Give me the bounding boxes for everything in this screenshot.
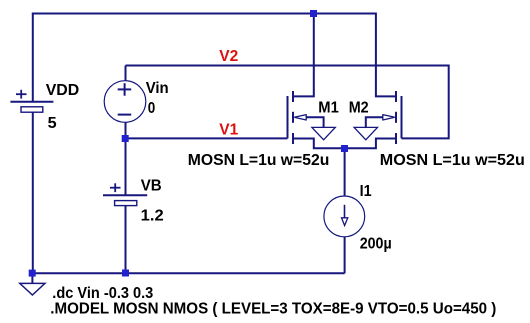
svg-text:VDD: VDD bbox=[46, 82, 79, 99]
svg-text:V1: V1 bbox=[219, 122, 238, 139]
svg-text:0: 0 bbox=[148, 100, 156, 117]
svg-text:.MODEL MOSN NMOS ( LEVEL=3 TOX: .MODEL MOSN NMOS ( LEVEL=3 TOX=8E-9 VTO=… bbox=[50, 301, 496, 318]
svg-text:.dc Vin -0.3 0.3: .dc Vin -0.3 0.3 bbox=[52, 285, 153, 302]
svg-text:VB: VB bbox=[141, 178, 162, 195]
svg-text:V2: V2 bbox=[219, 48, 238, 65]
svg-text:MOSN L=1u w=52u: MOSN L=1u w=52u bbox=[188, 152, 329, 169]
svg-text:1.2: 1.2 bbox=[141, 208, 164, 225]
svg-text:M2: M2 bbox=[349, 100, 369, 117]
svg-text:Vin: Vin bbox=[146, 80, 169, 97]
svg-text:MOSN L=1u w=52u: MOSN L=1u w=52u bbox=[380, 152, 525, 169]
svg-text:200µ: 200µ bbox=[360, 235, 392, 252]
svg-text:5: 5 bbox=[48, 115, 57, 132]
svg-text:I1: I1 bbox=[360, 183, 372, 200]
svg-text:M1: M1 bbox=[318, 100, 339, 117]
